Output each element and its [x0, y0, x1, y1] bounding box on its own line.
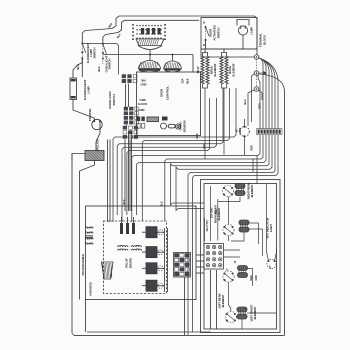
wire terminal N fan 2 [259, 74, 285, 90]
relay input fuse 2 [126, 223, 129, 234]
svg-text:SWITCH: SWITCH [217, 28, 221, 39]
svg-text:ELEMENT: ELEMENT [221, 294, 225, 307]
relay K1 body [146, 227, 157, 238]
relay K3 body [146, 263, 157, 274]
wire elem2 link [231, 232, 244, 242]
wire chains link to stack A [82, 44, 118, 75]
wire surface cross 1 [204, 218, 206, 241]
left front switch t2 [234, 313, 236, 315]
bake element zigzag 2 [225, 56, 228, 84]
fluorescent lamp switch contact 2 [81, 51, 83, 53]
relay K1 lead left [142, 231, 146, 233]
svg-text:B: B [203, 21, 205, 25]
terminal N [254, 71, 259, 76]
door lock connector stack C [123, 126, 138, 139]
wire terminal L2 left drop [248, 90, 254, 126]
transformer core line 2 [86, 236, 94, 238]
left rear element body [238, 266, 248, 278]
hi limit thermostat [240, 127, 250, 137]
wire starter to ballast [96, 121, 100, 150]
left rear switch body [223, 271, 234, 282]
door lock connector stack B [124, 107, 139, 124]
svg-text:LAMP: LAMP [87, 86, 91, 94]
oven sensor probe [175, 124, 180, 129]
surface unit outer box [201, 180, 281, 333]
left rear switch t3 [224, 279, 226, 281]
wire grid link 3 [196, 266, 204, 268]
wire grid B out 1 [224, 249, 241, 251]
wire control drop 2 [109, 140, 111, 223]
oven lamp dome left base [139, 68, 160, 71]
wire band line 8 [137, 135, 267, 215]
terminal N center [256, 72, 258, 74]
wire terminal L1 fan 1 [259, 58, 263, 129]
svg-text:SWITCH: SWITCH [112, 94, 116, 105]
wire grid B out 2 [224, 256, 241, 258]
wire bottom long [74, 334, 285, 336]
oven light switch contact 3 [102, 58, 104, 60]
relay K3 lead [157, 267, 165, 269]
connector grid B (surface terminals) [204, 244, 224, 270]
door activated switch dashed [205, 26, 207, 41]
svg-text:ELEMENT: ELEMENT [250, 184, 254, 197]
wire surface cross 2 [210, 186, 212, 241]
door lock connector stack A [122, 75, 137, 83]
fluorescent lamp tube cap top [71, 79, 76, 81]
relay K4 contact [158, 283, 163, 288]
wire terminal L1 fan 5 [259, 58, 275, 129]
oven lamp bulb [238, 26, 247, 35]
transformer coil row 4 [86, 243, 94, 245]
control connector row 4 (dark) [162, 117, 168, 121]
fluorescent lamp switch contact 3 [81, 57, 83, 59]
wire surface inner 2 [216, 270, 218, 329]
svg-text:BOARD: BOARD [129, 257, 133, 268]
wire relay box edge ext [84, 300, 86, 333]
wire surface inner 1 [210, 270, 212, 329]
svg-text:BLOCK: BLOCK [263, 34, 267, 45]
wire elem2 right link [249, 223, 259, 244]
right front switch t1 [224, 226, 226, 228]
wire grid link 2 [196, 260, 204, 262]
relay K1 fill [146, 227, 157, 238]
wire control drop 1 [107, 140, 109, 223]
svg-text:GRD: GRD [255, 275, 258, 281]
junction dome2 bus [172, 54, 174, 56]
fluorescent lamp switch contact 1 [81, 43, 83, 45]
left rear switch t4 [232, 279, 234, 281]
wire terminal L1 fan 2 [259, 58, 266, 129]
wire oven sensor drop [128, 131, 130, 211]
wire broil bottom bus [203, 84, 208, 88]
starter circle [92, 119, 102, 129]
right front element body [239, 220, 249, 232]
fluorescent lamp tube cap bottom [71, 96, 76, 98]
relay internal bus 2 [167, 228, 169, 292]
right rear element body [235, 184, 245, 196]
svg-text:BLK: BLK [97, 66, 101, 71]
svg-text:RED: RED [250, 275, 253, 280]
wire elem3 link [248, 269, 253, 287]
relay K1 lead [157, 231, 165, 233]
wire stack A to B link2 [128, 84, 130, 107]
svg-text:GRD: GRD [141, 83, 147, 87]
wire broil drop [204, 88, 206, 159]
oven lamp filament r [244, 26, 246, 30]
svg-text:RED: RED [202, 143, 206, 148]
oven sensor ring [161, 123, 167, 129]
ballast body [85, 151, 104, 161]
clock display digits [141, 28, 161, 35]
fluorescent lamp switch blade [82, 44, 86, 54]
relay input lead 1 [121, 217, 123, 223]
wire elem4 right [247, 312, 277, 314]
wire bottom left corner [72, 333, 74, 335]
hi limit terminal a [244, 126, 246, 128]
relay coil row 1 lower [118, 249, 129, 251]
right rear switch t4 [231, 194, 233, 196]
relay K4 lead left [142, 285, 146, 287]
wire grid to sw3 [226, 269, 228, 272]
svg-text:SENSOR: SENSOR [183, 120, 187, 133]
bake element zigzag 1 [220, 56, 223, 84]
wire bake drop [223, 88, 225, 155]
svg-text:CLOCK: CLOCK [138, 102, 148, 106]
relay internal bus 1 [164, 228, 166, 292]
terminal block dashed spine [256, 59, 258, 87]
svg-text:BLK: BLK [195, 133, 199, 138]
wire below fluorescent switch [81, 58, 83, 77]
wire bake top feed [223, 49, 225, 53]
svg-text:OVEN: OVEN [160, 89, 164, 97]
svg-text:GRD: GRD [139, 108, 145, 112]
svg-text:SWITCH: SWITCH [108, 59, 112, 70]
svg-text:LIGHT: LIGHT [269, 224, 273, 232]
wire bottom right riser [284, 90, 286, 335]
hot indicator t2 [274, 260, 276, 262]
harness connector hatch [103, 263, 112, 278]
surface unit inner box [204, 184, 277, 330]
svg-text:LAMP: LAMP [250, 27, 254, 35]
wire terminal L1 fan 3 [259, 58, 269, 129]
oven lamp dome right base [165, 68, 181, 70]
door switch contact top [205, 26, 207, 28]
relay K3 fill [146, 263, 157, 274]
wire door switch W drop [205, 41, 207, 49]
wire terminal N fan 1 [258, 74, 260, 129]
right front switch t2 [232, 226, 234, 228]
control connector row 3 [147, 117, 159, 122]
wire elem4 down [241, 319, 243, 330]
right front switch t3 [224, 233, 226, 235]
transformer core line 1 [86, 235, 94, 237]
door switch and lamp enclosure [201, 18, 257, 50]
door switch blade [206, 27, 210, 36]
broil element zigzag 2 [206, 56, 209, 84]
wire lamp bottom to terminal [242, 35, 244, 49]
svg-text:TRANSFORMER: TRANSFORMER [81, 253, 85, 275]
relay input lead 2 [127, 217, 129, 223]
clock display dot matrix [136, 25, 162, 39]
wire band line 2 [142, 88, 229, 221]
starter terminal a [93, 120, 95, 122]
left front element body [237, 307, 247, 319]
left rear switch t2 [232, 273, 234, 275]
relay coil row 2 [131, 245, 142, 247]
wire broil top feed [204, 49, 206, 53]
right front switch t4 [232, 233, 234, 235]
oven light switch blade [103, 44, 107, 54]
relay board dashed outline [104, 221, 167, 294]
svg-text:HARNESS: HARNESS [89, 282, 93, 296]
relay K2 body [146, 247, 157, 258]
left rear switch t1 [224, 273, 226, 275]
relay section outer box [85, 206, 196, 300]
terminal L2 [254, 87, 259, 92]
fluorescent lamp switch dashed link [81, 44, 83, 60]
relay input fuse 1 [120, 223, 123, 234]
wire grid link 1 [196, 254, 204, 256]
terminal L1 [254, 55, 259, 60]
svg-text:BR-W: BR-W [197, 66, 200, 73]
wire stackC drop 2 [129, 140, 131, 212]
wire out of hi limit [244, 136, 246, 155]
oven sensor probe tip [177, 126, 179, 128]
wire sensor link2 [174, 125, 176, 127]
connector grid A (relay to harness) [174, 253, 191, 278]
clock module side pins [132, 24, 166, 40]
wire hot ind leads2 [275, 248, 277, 261]
relay K4 lead [157, 285, 165, 287]
svg-text:RED: RED [215, 209, 218, 214]
wire band line 4 [122, 98, 217, 222]
right rear switch t2 [231, 187, 233, 189]
left front switch t3 [226, 320, 228, 322]
wire into hi limit [244, 119, 246, 127]
relay K4 body [146, 280, 157, 291]
transformer coil row 3 [86, 238, 94, 240]
left front switch t4 [234, 320, 236, 322]
svg-text:10A (TYP): 10A (TYP) [205, 220, 209, 231]
svg-text:CONTROL: CONTROL [166, 86, 170, 100]
clock display base hatch [138, 40, 159, 45]
hot indicator t1 [268, 260, 270, 262]
oven lamp dome left [139, 61, 161, 73]
transformer coil row 1 [86, 227, 94, 229]
relay K2 lead [157, 251, 165, 253]
clock lens arc [138, 46, 162, 50]
wire oven lamp feed (BLK) top run [103, 20, 199, 43]
starter terminal b [99, 120, 101, 122]
electronic oven control box [137, 72, 201, 136]
wire notch feed 2 [252, 159, 254, 172]
wire band line 6 [132, 135, 260, 222]
wire dome2 stem [172, 55, 174, 61]
relay K2 fill [146, 247, 157, 258]
left front switch t1 [226, 313, 228, 315]
clock display base trapezoid [136, 39, 164, 46]
harness connector wedge [102, 262, 114, 279]
relay K4 fill [146, 280, 157, 291]
wire left rail mid [79, 206, 81, 300]
control connector row 1 (dark pins) [137, 117, 145, 122]
wire lamp bus [103, 54, 193, 56]
wire hot ind leads [267, 184, 269, 262]
relay input lead 3 [133, 217, 135, 223]
oven sensor cylinder [169, 124, 176, 128]
transformer coil row 2 [86, 232, 94, 234]
hi limit terminal b [244, 135, 246, 137]
wire dome1 stem [149, 55, 151, 61]
wire left rail [71, 154, 73, 334]
terminal L2 center [256, 88, 258, 90]
wire bake bottom bus [222, 84, 227, 88]
right rear switch t3 [223, 194, 225, 196]
wire band line 11 [188, 135, 275, 335]
wire band line 12 [193, 135, 278, 332]
junction clock bus [149, 54, 151, 56]
wire sw2 down [228, 236, 230, 241]
wire band line 3 [117, 88, 223, 215]
wire lower link [87, 331, 211, 333]
wire elem2 right link2 [249, 229, 263, 256]
wire into starter [73, 100, 94, 122]
wire stack B to C link [126, 125, 128, 126]
wire sw1 to sw2 [228, 197, 230, 225]
wire broil tops [203, 53, 208, 57]
relay K2 contact [158, 250, 163, 255]
oven lamp bracket [237, 20, 249, 26]
wire terminal N left drop [252, 74, 255, 122]
wire band line 5 [127, 98, 210, 215]
relay K3 lead left [142, 267, 146, 269]
wire grid A drop [184, 277, 186, 335]
hot indicator light [267, 259, 276, 268]
wire sensor drop 2 [131, 131, 133, 211]
oven light switch contact 1 [102, 43, 104, 45]
wire clock stem [149, 50, 151, 55]
wire terminal L2 drop a [259, 90, 262, 100]
wire stackC drop 1 [124, 140, 126, 212]
wire L1 top run (RED) to terminal block [82, 16, 257, 55]
wire ballast bottom diagonal [80, 161, 95, 207]
wire bus to control box [192, 55, 194, 73]
right bundle connector row [257, 129, 283, 135]
wire band line 9 [171, 135, 270, 205]
wire ballast to left rail [72, 154, 85, 163]
wire notch feed [256, 156, 258, 184]
ground arrow at N [260, 71, 267, 74]
wire grid link 4 [196, 272, 204, 274]
door switch contact bottom [205, 39, 207, 41]
oven light switch contact 2 [102, 52, 104, 54]
right rear switch t1 [223, 187, 225, 189]
control connector row 2 [137, 124, 145, 129]
right front switch blade [225, 227, 233, 234]
relay input fuse 3 [132, 223, 135, 234]
svg-text:BLK: BLK [243, 99, 247, 104]
wire band line 1 [113, 88, 236, 222]
fluorescent lamp tube [70, 78, 77, 100]
svg-text:RED: RED [258, 103, 262, 108]
right rear switch blade [224, 188, 232, 195]
wire elements bus [201, 48, 257, 50]
svg-text:GY: GY [269, 265, 272, 269]
relay coil row 2 lower [131, 249, 142, 251]
wire terminal L1 fan 6 [259, 58, 278, 129]
wire stack A to B link1 [125, 84, 127, 107]
wire g1 bottom bus [218, 197, 240, 202]
relay K3 contact [158, 266, 163, 271]
relay coil row 1 [118, 245, 129, 247]
svg-text:20A: 20A [181, 79, 185, 84]
wire sensor link [167, 125, 169, 127]
wire surface cross 3 [217, 199, 219, 241]
svg-text:RED: RED [251, 145, 254, 150]
left rear switch blade [225, 274, 233, 281]
wire sw3 to sw4 [229, 282, 231, 311]
svg-text:SWITCH: SWITCH [92, 48, 96, 59]
svg-text:BLK: BLK [186, 78, 190, 83]
svg-text:LIMIT: LIMIT [238, 127, 242, 134]
relay K2 lead left [142, 251, 146, 253]
wire band line 7 [165, 135, 263, 221]
svg-text:ELEMENT: ELEMENT [232, 63, 236, 76]
wire elem1 feed [239, 183, 241, 185]
oven lamp dome right [164, 61, 182, 72]
left front switch blade [227, 314, 235, 321]
wire band line 10 [176, 135, 272, 211]
svg-text:STARTER: STARTER [88, 108, 92, 122]
right rear switch body [222, 185, 233, 196]
relay K1 contact [158, 230, 163, 235]
right front switch body [223, 224, 234, 235]
svg-text:ELEMENT: ELEMENT [213, 63, 217, 76]
terminal L1 center [256, 56, 258, 58]
wire bake tops [222, 53, 227, 57]
broil element zigzag 1 [201, 56, 204, 84]
wire terminal L1 fan 4 [259, 58, 272, 129]
oven light switch dashed link [102, 44, 104, 65]
wire terminal L1 left [201, 49, 254, 57]
wire lamp top lead [73, 59, 82, 78]
left front switch body [225, 311, 236, 322]
oven lamp filament l [240, 26, 242, 30]
